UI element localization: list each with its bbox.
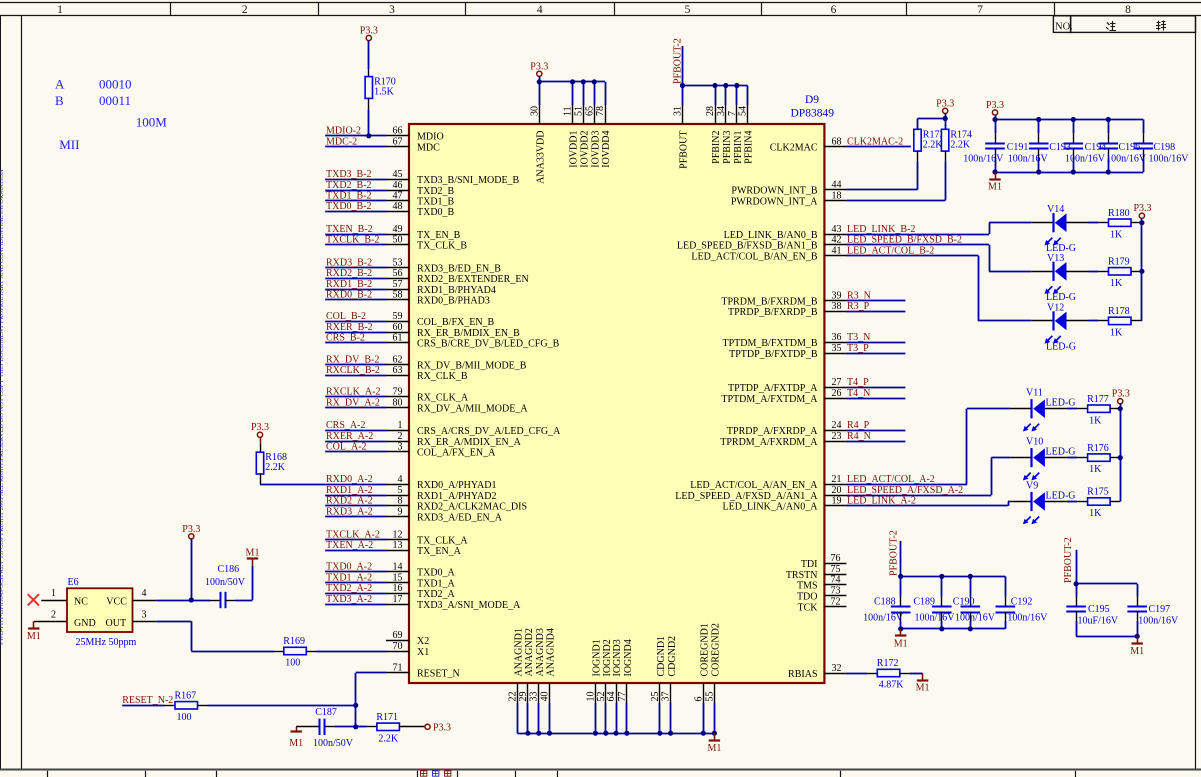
svg-text:100n/16V: 100n/16V [1138, 616, 1179, 627]
pin 7 PFBIN1 (top) [727, 105, 744, 164]
svg-text:LED-G: LED-G [1046, 447, 1076, 458]
svg-text:TXD0_B-2: TXD0_B-2 [326, 201, 372, 212]
svg-text:RESET_N: RESET_N [417, 669, 460, 680]
pin 38 TPRDP_B/FXRDP_B with net R3_P [728, 301, 905, 318]
power P3.3 right rail (lower LEDs) [1112, 389, 1130, 404]
svg-text:23: 23 [832, 431, 842, 442]
svg-text:PFBOUT-2: PFBOUT-2 [1063, 537, 1074, 583]
pin 75 TRSTN [786, 564, 847, 581]
svg-text:P3.3: P3.3 [530, 61, 548, 72]
svg-text:00010: 00010 [99, 77, 132, 92]
wire R173 to pin 44 [917, 161, 919, 190]
svg-text:67: 67 [393, 136, 403, 147]
pin 42 LED_SPEED_B/FXSD_B/AN1_B with net LED_SPEED_B/FXSD_B-2 [677, 235, 989, 252]
svg-text:6: 6 [693, 697, 704, 702]
pin 60 RX_ER_B/MDIX_EN_B with net RXER_B-2 [325, 322, 520, 339]
svg-text:46: 46 [393, 180, 403, 191]
svg-text:RXD0_B-2: RXD0_B-2 [326, 290, 372, 301]
pin 80 RX_DV_A/MII_MODE_A with net RX_DV_A-2 [325, 397, 528, 414]
svg-text:100: 100 [285, 658, 300, 669]
capacitor C191 100n/16V [963, 133, 1028, 164]
pin 24 TPRDP_A/FXRDP_A with net R4_P [727, 420, 905, 437]
svg-text:LED_LINK_B-2: LED_LINK_B-2 [847, 224, 915, 235]
junction dots C188-bank top [898, 574, 973, 579]
ic D9 DP83849 body [409, 124, 824, 683]
junction dots C191-bank bottom [992, 169, 1111, 174]
svg-text:ANAGND4: ANAGND4 [546, 628, 557, 676]
junction dots C188-bank bottom [898, 626, 973, 631]
junction rail/V11 [1118, 406, 1123, 411]
svg-text:R180: R180 [1108, 208, 1130, 219]
svg-text:CDGND2: CDGND2 [667, 636, 678, 677]
svg-text:OUT: OUT [106, 618, 127, 629]
resistor R176 1K [1077, 443, 1120, 475]
resistor R180 1K [1098, 208, 1142, 240]
svg-text:PFBIN3: PFBIN3 [722, 131, 733, 164]
svg-text:2: 2 [51, 609, 56, 620]
svg-text:TX_CLK_A: TX_CLK_A [417, 536, 468, 547]
capacitor C194 100n/16V [1064, 133, 1107, 164]
pin 3 COL_A/FX_EN_A with net COL_A-2 [325, 442, 496, 459]
svg-text:IOGND1: IOGND1 [592, 639, 603, 676]
svg-text:CRS_B-2: CRS_B-2 [326, 333, 365, 344]
svg-text:100n/16V: 100n/16V [963, 154, 1004, 165]
svg-text:37: 37 [661, 692, 672, 702]
svg-text:TPTDP_A/FXTDP_A: TPTDP_A/FXTDP_A [728, 383, 818, 394]
junction PFBOUT-2/C195 [1074, 581, 1079, 586]
svg-text:TXD2_B: TXD2_B [417, 186, 455, 197]
junction RESET/R167 [353, 703, 358, 708]
wire C188-bank top bus [901, 576, 1006, 596]
wire P3.3 to ANA33VDD and IOVDD bus [539, 76, 605, 105]
wire C191-bank top bus [995, 115, 1144, 133]
junction VCC/P3.3/C186 [189, 597, 194, 602]
svg-text:RX_CLK_B: RX_CLK_B [417, 371, 468, 382]
pin 40 ANAGND4 (bottom) [540, 628, 557, 703]
ground M1 under chip [707, 733, 721, 754]
svg-text:100n/16V: 100n/16V [1065, 154, 1106, 165]
svg-text:COL_A-2: COL_A-2 [326, 442, 367, 453]
svg-text:LED_SPEED_B/FXSD_B-2: LED_SPEED_B/FXSD_B-2 [847, 235, 962, 246]
svg-text:COL_B-2: COL_B-2 [326, 311, 366, 322]
svg-text:LED_LINK_A/AN0_A: LED_LINK_A/AN0_A [723, 502, 819, 513]
wire pin row to LED V13 [989, 245, 1031, 272]
svg-text:RX_CLK_A: RX_CLK_A [417, 393, 469, 404]
title block fragment text [421, 771, 451, 776]
svg-text:33: 33 [529, 692, 540, 702]
svg-text:RX_ER_A/MDIX_EN_A: RX_ER_A/MDIX_EN_A [417, 437, 522, 448]
svg-text:TXD3_A-2: TXD3_A-2 [326, 594, 372, 605]
svg-text:TXD0_A-2: TXD0_A-2 [326, 562, 372, 573]
ground M1 at R172 [916, 673, 930, 694]
svg-text:E6: E6 [68, 577, 79, 588]
svg-text:M1: M1 [894, 638, 908, 649]
no-connect X on pin 1 [28, 594, 39, 605]
pin 28 PFBIN2 (top) [705, 105, 722, 164]
pin 18 PWRDOWN_INT_A [731, 190, 945, 207]
svg-text:M1: M1 [246, 547, 260, 558]
svg-text:COL_A/FX_EN_A: COL_A/FX_EN_A [417, 448, 496, 459]
notes table NO. [1053, 16, 1195, 33]
svg-text:1K: 1K [1110, 278, 1123, 289]
pin 29 ANAGND2 (bottom) [518, 628, 535, 703]
svg-text:TXD1_B-2: TXD1_B-2 [326, 191, 372, 202]
svg-text:MDIO-2: MDIO-2 [326, 126, 361, 137]
svg-text:10uF/16V: 10uF/16V [1078, 616, 1119, 627]
svg-text:NO.: NO. [1055, 21, 1073, 32]
svg-text:57: 57 [393, 279, 403, 290]
svg-text:75: 75 [831, 564, 841, 575]
svg-text:70: 70 [393, 641, 403, 652]
svg-text:4: 4 [537, 4, 543, 16]
pin 1 CRS_A/CRS_DV_A/LED_CFG_A with net CRS_A-2 [325, 420, 561, 437]
svg-text:TMS: TMS [797, 581, 818, 592]
wire LED V13 to R179 [1089, 271, 1099, 273]
svg-text:RXD2_B/EXTENDER_EN: RXD2_B/EXTENDER_EN [417, 274, 529, 285]
svg-text:RX_DV_A/MII_MODE_A: RX_DV_A/MII_MODE_A [417, 403, 528, 414]
pin 65 IOVDD3 (top) [584, 105, 601, 168]
svg-text:63: 63 [393, 365, 403, 376]
power P3.3 above R173/R174 [936, 98, 954, 113]
svg-text:1.5K: 1.5K [374, 87, 395, 98]
capacitor C195 10uF/16V [1066, 597, 1119, 627]
svg-text:R171: R171 [376, 712, 398, 723]
svg-text:47: 47 [393, 191, 403, 202]
svg-text:59: 59 [393, 311, 403, 322]
svg-text:RX_ER_B/MDIX_EN_B: RX_ER_B/MDIX_EN_B [417, 328, 520, 339]
svg-text:100n/16V: 100n/16V [1149, 154, 1190, 165]
pin 76 TDI [801, 553, 847, 570]
svg-text:TPRDP_A/FXRDP_A: TPRDP_A/FXRDP_A [727, 426, 818, 437]
svg-text:CRS_A/CRS_DV_A/LED_CFG_A: CRS_A/CRS_DV_A/LED_CFG_A [417, 426, 561, 437]
svg-text:RESET_N-2: RESET_N-2 [122, 695, 173, 706]
svg-text:100n/16V: 100n/16V [955, 612, 996, 623]
wire P3.3 down to VCC node [191, 539, 193, 600]
svg-text:31: 31 [673, 106, 684, 116]
pin 56 RXD2_B/EXTENDER_EN with net RXD2_B-2 [325, 268, 528, 285]
pin 21 LED_ACT/COL_A/AN_EN_A with net LED_ACT/COL_A-2 [690, 474, 967, 491]
svg-text:COREGND1: COREGND1 [700, 623, 711, 676]
pin 67 MDC with net MDC-2 [325, 136, 440, 153]
power P3.3 right rail (upper LEDs) [1133, 203, 1151, 218]
capacitor C186 100n/50V [205, 564, 246, 608]
svg-text:8: 8 [398, 496, 403, 507]
svg-text:TPTDM_A/FXTDM_A: TPTDM_A/FXTDM_A [721, 394, 818, 405]
svg-text:RXD1_A-2: RXD1_A-2 [326, 485, 373, 496]
pin 16 TXD2_A with net TXD2_A-2 [325, 583, 455, 600]
svg-text:R178: R178 [1108, 306, 1130, 317]
svg-text:R177: R177 [1087, 394, 1109, 405]
svg-text:58: 58 [393, 290, 403, 301]
svg-text:LED_SPEED_A/FXSD_A-2: LED_SPEED_A/FXSD_A-2 [847, 485, 963, 496]
wire R174 to pin 18 [945, 161, 947, 200]
svg-text:ANAGND1: ANAGND1 [514, 628, 525, 676]
svg-text:5: 5 [398, 485, 403, 496]
pin 69 X2 [386, 630, 429, 647]
wire C195/C197 bottom [1076, 621, 1137, 637]
LED V9 LED-G [1010, 481, 1076, 525]
svg-text:IOVDD4: IOVDD4 [601, 131, 612, 168]
svg-text:CRS_B/CRE_DV_B/LED_CFG_B: CRS_B/CRE_DV_B/LED_CFG_B [417, 339, 560, 350]
svg-text:DP83849: DP83849 [791, 107, 835, 119]
svg-text:74: 74 [831, 575, 841, 586]
svg-text:P3.3: P3.3 [433, 723, 451, 734]
svg-text:100n/50V: 100n/50V [205, 577, 246, 588]
svg-text:1K: 1K [1089, 415, 1102, 426]
pin 41 LED_ACT/COL_B/AN_EN_B with net LED_ACT/COL_B-2 [691, 245, 978, 262]
svg-text:PWB-PHY-DP83849-SCH REV 1.0 CO: PWB-PHY-DP83849-SCH REV 1.0 COPYRIGHT 20… [0, 169, 5, 645]
pin 22 ANAGND1 (bottom) [507, 628, 524, 703]
junction RESET/C187/R171 [353, 724, 358, 729]
svg-text:TPRDM_B/FXRDM_B: TPRDM_B/FXRDM_B [721, 296, 817, 307]
svg-text:M1: M1 [916, 683, 930, 694]
svg-text:77: 77 [617, 692, 628, 702]
resistor R171 2.2K [367, 712, 425, 744]
ground M1 at C187 [289, 727, 303, 749]
svg-text:13: 13 [393, 540, 403, 551]
svg-text:56: 56 [393, 268, 403, 279]
svg-text:35: 35 [832, 343, 842, 354]
svg-text:C189: C189 [913, 596, 935, 607]
pin 34 PFBIN3 (top) [716, 105, 733, 164]
svg-text:PWRDOWN_INT_B: PWRDOWN_INT_B [731, 186, 817, 197]
pin 10 IOGND1 (bottom) [585, 639, 602, 703]
resistor R173 2.2K [914, 129, 945, 161]
svg-text:2.2K: 2.2K [950, 139, 971, 150]
capacitor C190 100n/16V [953, 596, 996, 623]
svg-text:X2: X2 [417, 636, 429, 647]
svg-text:65: 65 [584, 106, 595, 116]
svg-text:RXER_A-2: RXER_A-2 [326, 431, 373, 442]
svg-text:RX_DV_B/MII_MODE_B: RX_DV_B/MII_MODE_B [417, 360, 527, 371]
ground M1 below C197 [1130, 636, 1144, 657]
svg-text:R172: R172 [877, 658, 899, 669]
svg-text:32: 32 [832, 663, 842, 674]
pin 27 TPTDP_A/FXTDP_A with net T4_P [728, 377, 905, 394]
pin 43 LED_LINK_B/AN0_B with net LED_LINK_B-2 [724, 224, 989, 241]
svg-text:25: 25 [650, 692, 661, 702]
wire R169 to X1 [317, 651, 387, 653]
svg-text:16: 16 [393, 583, 403, 594]
svg-text:TX_CLK_B: TX_CLK_B [417, 241, 467, 252]
wire P3.3 to R168 [260, 437, 262, 444]
wire LED V10 to R176 [1067, 457, 1077, 459]
pin 52 IOGND2 (bottom) [596, 639, 613, 703]
pin 55 COREGND2 (bottom) [704, 623, 721, 703]
pin 11 IOVDD1 (top) [563, 105, 580, 168]
svg-text:V13: V13 [1047, 253, 1064, 264]
svg-text:RXD0_A-2: RXD0_A-2 [326, 474, 373, 485]
svg-text:R169: R169 [283, 636, 305, 647]
junction rail/V10 [1118, 455, 1123, 460]
svg-text:C195: C195 [1088, 604, 1110, 615]
junction dots PFBIN bus [680, 83, 740, 88]
svg-text:60: 60 [393, 322, 403, 333]
svg-text:3: 3 [142, 609, 147, 620]
svg-text:TXD2_A: TXD2_A [417, 589, 456, 600]
svg-text:2.2K: 2.2K [265, 462, 286, 473]
resistor R169 100 [274, 636, 317, 668]
wire C186 to M1 [235, 566, 252, 601]
pin 25 CDGND1 (bottom) [650, 636, 667, 703]
svg-text:PFBOUT-2: PFBOUT-2 [889, 530, 900, 576]
pin 74 TMS [797, 575, 846, 592]
pin 37 CDGND2 (bottom) [661, 636, 678, 703]
svg-text:6: 6 [831, 4, 837, 16]
svg-text:7: 7 [977, 4, 983, 16]
svg-text:TRSTN: TRSTN [786, 570, 818, 581]
svg-text:55: 55 [704, 692, 715, 702]
svg-text:TXD1_A: TXD1_A [417, 578, 456, 589]
LED V12 LED-G [1031, 302, 1088, 352]
wire pin row to LED V11 [967, 409, 1010, 485]
svg-text:A: A [55, 77, 65, 92]
svg-text:LED-G: LED-G [1046, 292, 1076, 303]
svg-text:26: 26 [832, 388, 842, 399]
wire VCC to P3.3/C186 [156, 600, 210, 602]
pin 6 COREGND1 (bottom) [693, 623, 710, 703]
hanzi zhu (note) [1106, 21, 1116, 31]
junction C197/ground [1135, 634, 1140, 639]
svg-text:LED_ACT/COL_A-2: LED_ACT/COL_A-2 [847, 474, 935, 485]
svg-text:P3.3: P3.3 [1112, 389, 1130, 400]
junction rail/V14 [1139, 220, 1144, 225]
svg-text:TDI: TDI [801, 559, 818, 570]
pin 62 RX_DV_B/MII_MODE_B with net RX_DV_B-2 [325, 354, 527, 371]
svg-text:TXD2_B-2: TXD2_B-2 [326, 180, 372, 191]
svg-text:27: 27 [832, 377, 842, 388]
pin 31 PFBOUT (top) [673, 105, 690, 169]
svg-text:4.87K: 4.87K [879, 680, 905, 691]
svg-text:PFBIN4: PFBIN4 [744, 131, 755, 164]
wire P3.3 to R173/R174 tops [918, 114, 946, 130]
pin 14 TXD0_A with net TXD0_A-2 [325, 562, 455, 579]
svg-text:RXCLK_B-2: RXCLK_B-2 [326, 365, 380, 376]
pin 8 RXD2_A/CLK2MAC_DIS with net RXD2_A-2 [325, 496, 527, 513]
svg-text:CLK2MAC: CLK2MAC [770, 142, 818, 153]
svg-text:MII: MII [59, 137, 79, 152]
svg-text:100n/16V: 100n/16V [915, 612, 956, 623]
wire OUT to R169 [156, 621, 273, 651]
svg-text:TXEN_B-2: TXEN_B-2 [326, 224, 373, 235]
pin 58 RXD0_B/PHAD3 with net RXD0_B-2 [325, 290, 490, 307]
svg-text:RXD3_B-2: RXD3_B-2 [326, 258, 372, 269]
svg-text:41: 41 [832, 245, 842, 256]
svg-text:T3_P: T3_P [847, 343, 869, 354]
pin 13 TX_EN_A with net TXEN_A-2 [325, 540, 461, 557]
svg-text:R176: R176 [1087, 443, 1109, 454]
resistor R177 1K [1077, 394, 1120, 426]
resistor R179 1K [1098, 257, 1142, 289]
svg-text:V9: V9 [1026, 481, 1038, 492]
pin 70 X1 [386, 641, 429, 658]
wire R167 to RESET node [208, 673, 387, 727]
svg-text:69: 69 [393, 630, 403, 641]
pin 45 TXD3_B/SNI_MODE_B with net TXD3_B-2 [325, 169, 519, 186]
power P3.3 above R168 [251, 422, 269, 437]
svg-text:LED-G: LED-G [1046, 398, 1076, 409]
svg-text:C190: C190 [953, 596, 975, 607]
svg-text:VCC: VCC [106, 597, 127, 608]
wire C191-bank bottom bus [995, 158, 1144, 173]
svg-text:LED_LINK_B/AN0_B: LED_LINK_B/AN0_B [724, 230, 818, 241]
wire P3.3 rail down V11..V9 [1120, 404, 1122, 502]
svg-text:TPRDM_A/FXRDM_A: TPRDM_A/FXRDM_A [720, 437, 818, 448]
wire P3.3 rail down V14..V12 [1141, 218, 1143, 321]
junction P3.3/R174 [943, 116, 948, 121]
LED V10 LED-G [1010, 437, 1076, 481]
svg-text:RXD2_B-2: RXD2_B-2 [326, 268, 372, 279]
svg-text:LED_ACT/COL_B-2: LED_ACT/COL_B-2 [847, 245, 934, 256]
pin 46 TXD2_B with net TXD2_B-2 [325, 180, 454, 197]
pin 3 OUT (E6) [133, 609, 157, 621]
svg-text:40: 40 [540, 692, 551, 702]
svg-text:44: 44 [832, 180, 842, 191]
svg-text:LED_SPEED_B/FXSD_B/AN1_B: LED_SPEED_B/FXSD_B/AN1_B [677, 241, 818, 252]
svg-text:RXD3_A/ED_EN_A: RXD3_A/ED_EN_A [417, 512, 503, 523]
svg-text:T4_N: T4_N [847, 388, 870, 399]
capacitor C187 100n/50V [296, 707, 354, 749]
svg-text:LED-G: LED-G [1046, 341, 1076, 352]
svg-text:36: 36 [832, 332, 842, 343]
junction dots IOVDD bus [537, 79, 597, 84]
wire R170 to MDIO [368, 109, 370, 136]
junction R170/MDIO [366, 133, 371, 138]
svg-text:TXD3_B-2: TXD3_B-2 [326, 169, 372, 180]
pin 32 RBIAS [788, 663, 867, 680]
svg-text:LED-G: LED-G [1046, 491, 1076, 502]
svg-text:RXD2_A-2: RXD2_A-2 [326, 496, 373, 507]
pin 50 TX_CLK_B with net TXCLK_B-2 [325, 235, 467, 252]
pin 79 RX_CLK_A with net RXCLK_A-2 [325, 387, 469, 404]
svg-text:R4_P: R4_P [847, 420, 870, 431]
resistor R168 2.2K [256, 452, 287, 484]
svg-text:100: 100 [177, 712, 192, 723]
pin 4 RXD0_A/PHYAD1 with net RXD0_A-2 [325, 474, 496, 491]
svg-text:100n/16V: 100n/16V [1007, 612, 1048, 623]
svg-text:7: 7 [727, 111, 738, 116]
pin 2 GND (E6) [34, 609, 67, 621]
svg-text:P3.3: P3.3 [1133, 203, 1151, 214]
hanzi shi (explain) [1156, 21, 1166, 31]
svg-text:11: 11 [563, 106, 574, 116]
svg-text:1: 1 [398, 420, 403, 431]
wire PFBOUT-2 stub down to bus [900, 541, 902, 577]
pin 64 IOGND3 (bottom) [606, 639, 623, 703]
resistor R170 1.5K [365, 69, 396, 109]
wire PFBOUT-2 stub to C195/C197 [1076, 550, 1137, 597]
svg-text:1K: 1K [1089, 464, 1102, 475]
svg-text:2: 2 [242, 4, 248, 16]
capacitor C196 100n/16V [1099, 133, 1147, 164]
svg-text:25MHz 50ppm: 25MHz 50ppm [76, 637, 137, 648]
pin 30 ANA33VDD (top) [529, 105, 546, 184]
svg-text:TPRDP_B/FXRDP_B: TPRDP_B/FXRDP_B [728, 307, 818, 318]
resistor R175 1K [1077, 487, 1120, 519]
svg-text:2.2K: 2.2K [378, 733, 399, 744]
svg-text:RX_DV_B-2: RX_DV_B-2 [326, 354, 379, 365]
svg-text:100n/16V: 100n/16V [863, 612, 904, 623]
svg-text:TX_EN_A: TX_EN_A [417, 546, 462, 557]
svg-text:TXD3_A/SNI_MODE_A: TXD3_A/SNI_MODE_A [417, 600, 521, 611]
svg-text:1K: 1K [1110, 328, 1123, 339]
pin 35 TPTDP_B/FXTDP_B with net T3_P [729, 343, 905, 360]
wire pin row to LED V9 [1008, 502, 1010, 506]
svg-text:RXD3_B/ED_EN_B: RXD3_B/ED_EN_B [417, 264, 501, 275]
svg-text:TXCLK_B-2: TXCLK_B-2 [326, 235, 379, 246]
svg-text:73: 73 [831, 586, 841, 597]
svg-text:LED_SPEED_A/FXSD_A/AN1_A: LED_SPEED_A/FXSD_A/AN1_A [675, 491, 818, 502]
